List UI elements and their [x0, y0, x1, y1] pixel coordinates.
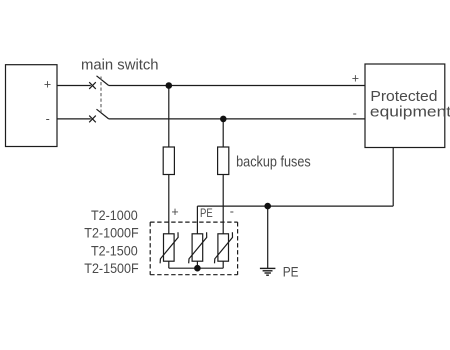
- wire PE horizontal: [197, 205, 393, 207]
- svg-text:equipment: equipment: [370, 103, 450, 120]
- svg-text:main switch: main switch: [81, 56, 159, 73]
- svg-text:Protected: Protected: [370, 88, 437, 105]
- svg-text:+: +: [352, 71, 359, 85]
- switch S1 blade: [97, 76, 109, 86]
- wire RV2 bottom: [196, 261, 198, 268]
- wire PE down to varistor RV2: [196, 206, 198, 234]
- junction node plus: [166, 82, 173, 89]
- svg-text:backup fuses: backup fuses: [236, 152, 311, 169]
- wire RV3 bottom: [222, 261, 224, 268]
- wire plus from switch to protected box: [109, 85, 365, 87]
- SPD dashed enclosure left: [149, 222, 151, 275]
- svg-text:-: -: [353, 107, 357, 121]
- varistor RV2 body: [192, 234, 203, 261]
- wire fuse F2 to varistor RV3: [222, 175, 224, 234]
- svg-text:-: -: [230, 205, 234, 219]
- wire earth drop: [267, 206, 269, 268]
- wire minus from switch to protected box: [109, 118, 365, 120]
- wire RV1 bottom: [168, 261, 170, 268]
- protected equipment box U2: [365, 64, 445, 148]
- wire fuse F1 to varistor RV1: [168, 175, 170, 234]
- fuse F2: [218, 147, 229, 175]
- svg-text:T2-1500: T2-1500: [91, 243, 138, 259]
- junction node SPD bus: [194, 265, 201, 272]
- source box: [6, 65, 58, 147]
- svg-text:PE: PE: [283, 264, 299, 280]
- svg-text:T2-1000: T2-1000: [91, 207, 138, 223]
- switch S2 blade: [97, 109, 109, 119]
- wire node minus down to fuse F2: [222, 119, 224, 147]
- wire bottom bus: [169, 267, 223, 269]
- svg-text:-: -: [46, 112, 50, 126]
- svg-text:T2-1000F: T2-1000F: [84, 225, 138, 241]
- wire node plus down to fuse F1: [168, 86, 170, 148]
- SPD dashed enclosure bottom: [150, 274, 237, 276]
- switch coupling dashed link: [100, 77, 102, 113]
- varistor RV1 stroke: [160, 232, 178, 263]
- varistor RV2 stroke: [189, 232, 207, 263]
- varistor RV3 body: [218, 234, 229, 261]
- wire minus from source to switch: [57, 118, 91, 120]
- svg-text:+: +: [44, 78, 51, 92]
- svg-text:PE: PE: [200, 207, 213, 220]
- switch S2 contact X: [89, 116, 96, 123]
- ground PE symbol: [260, 267, 276, 269]
- SPD dashed enclosure right: [237, 222, 239, 275]
- svg-text:T2-1500F: T2-1500F: [84, 261, 138, 277]
- fuse F1: [163, 147, 174, 175]
- SPD dashed enclosure top: [150, 221, 237, 223]
- svg-text:+: +: [171, 205, 178, 219]
- wire plus from source to switch: [57, 85, 91, 87]
- varistor RV1 body: [164, 234, 175, 261]
- wire PE from protected box down: [392, 148, 394, 207]
- varistor RV3 stroke: [215, 232, 233, 263]
- switch S1 contact X: [89, 82, 96, 89]
- junction node earth: [264, 203, 271, 210]
- junction node minus: [220, 116, 227, 123]
